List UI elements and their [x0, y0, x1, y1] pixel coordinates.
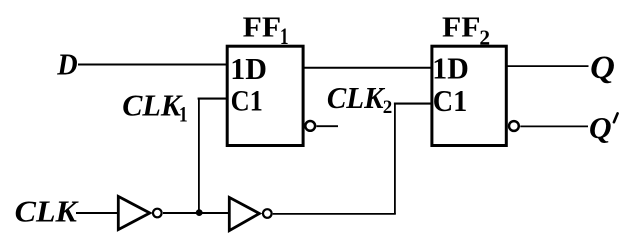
svg-text:CLK: CLK	[122, 88, 183, 123]
prime mark of Q'	[614, 113, 618, 122]
wire inverter1 to inverter2	[163, 212, 229, 214]
flip-flop FF1 (box)	[227, 46, 303, 145]
svg-text:1: 1	[179, 101, 188, 126]
inverter 2 bubble	[263, 209, 272, 218]
svg-text:FF: FF	[442, 12, 481, 44]
wire CLK2 horizontal into C1 of FF2	[394, 103, 432, 105]
svg-text:C1: C1	[231, 85, 263, 118]
wire FF1 Q to FF2 1D	[303, 67, 432, 69]
junction dot CLK1	[196, 209, 203, 216]
svg-text:2: 2	[479, 25, 490, 49]
svg-text:C1: C1	[433, 84, 468, 118]
svg-text:Q: Q	[590, 50, 615, 86]
wire CLK2 vertical riser	[394, 103, 396, 214]
inverter 1 bubble	[153, 209, 162, 218]
svg-text:D: D	[56, 47, 77, 81]
wire CLK1 horizontal into C1 of FF1	[198, 98, 227, 100]
wire CLK1 vertical from junction	[198, 98, 200, 213]
flip-flop FF2 (box)	[432, 46, 506, 145]
svg-text:CLK: CLK	[327, 80, 386, 115]
wire stub from FF1 inverted output	[317, 125, 339, 127]
inverted output bubble of FF1	[305, 121, 315, 131]
svg-text:Q: Q	[589, 111, 612, 145]
svg-text:1: 1	[280, 24, 289, 49]
wire D input	[78, 64, 227, 66]
inverter 1 (triangle)	[118, 196, 150, 229]
svg-text:1D: 1D	[230, 51, 267, 86]
inverter 2 (triangle)	[229, 197, 259, 230]
wire Q output	[506, 65, 589, 67]
wire inverter2 output to CLK2 riser	[273, 213, 396, 215]
wire Q' output	[520, 125, 588, 127]
svg-text:1D: 1D	[432, 51, 469, 86]
svg-text:FF: FF	[243, 12, 282, 44]
svg-text:2: 2	[383, 97, 393, 118]
wire CLK input	[76, 212, 118, 214]
inverted output bubble of FF2	[509, 121, 519, 131]
svg-text:CLK: CLK	[15, 194, 80, 229]
